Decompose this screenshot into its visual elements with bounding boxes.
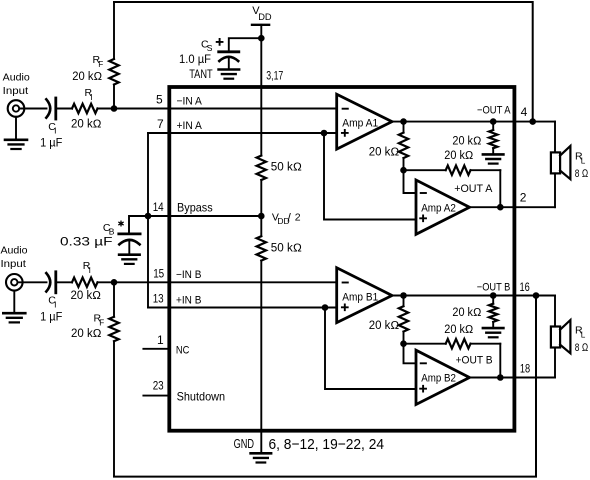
connector J2 audio input B bbox=[6, 274, 23, 291]
svg-text:20 kΩ: 20 kΩ bbox=[452, 307, 481, 319]
resistor 20k A horiz bbox=[404, 169, 446, 171]
svg-text:Audio: Audio bbox=[3, 71, 30, 83]
ground 20k A bbox=[483, 153, 504, 156]
svg-text:Amp A2: Amp A2 bbox=[421, 202, 456, 214]
AmpA2 minus bbox=[421, 192, 426, 194]
wire speaker A bottom bbox=[554, 173, 556, 207]
svg-text:20 kΩ: 20 kΩ bbox=[71, 328, 102, 340]
wire -IN B bbox=[169, 281, 336, 283]
svg-text:F: F bbox=[99, 319, 104, 328]
wire +IN B bbox=[148, 307, 337, 309]
svg-text:−IN B: −IN B bbox=[176, 269, 201, 281]
node +OUT A bbox=[497, 204, 504, 211]
svg-text:20 kΩ: 20 kΩ bbox=[369, 147, 400, 159]
svg-text:6, 8−12, 19−22, 24: 6, 8−12, 19−22, 24 bbox=[269, 436, 385, 453]
node bypass junction bbox=[145, 213, 152, 220]
pin 1 NC stub bbox=[143, 348, 169, 350]
wire rail to GND bbox=[260, 261, 262, 454]
node A input junction bbox=[111, 105, 118, 112]
wire VDD rail bbox=[260, 25, 262, 156]
capacitor CB bbox=[119, 232, 140, 235]
wire RI_A to node bbox=[98, 108, 170, 110]
svg-text:1 µF: 1 µF bbox=[40, 311, 62, 323]
wire -IN A bbox=[169, 108, 336, 110]
wire A2 plus input bbox=[324, 133, 416, 220]
svg-text:I: I bbox=[89, 266, 91, 275]
ground GND bbox=[251, 452, 272, 455]
speaker RL_B bbox=[551, 327, 560, 348]
AmpB2 plus bbox=[420, 386, 426, 392]
capacitor CI_A bbox=[46, 99, 50, 117]
node -OUT B ext bbox=[533, 292, 540, 299]
svg-text:13: 13 bbox=[153, 292, 164, 306]
resistor RF_A bbox=[113, 2, 115, 59]
svg-text:−IN A: −IN A bbox=[177, 95, 203, 107]
AmpA1 plus bbox=[342, 130, 348, 136]
VDD terminal bar bbox=[252, 24, 269, 26]
wire speaker B top bbox=[554, 296, 556, 327]
node +OUT B bbox=[497, 374, 504, 381]
svg-text:Input: Input bbox=[3, 85, 29, 97]
wire CB branch bbox=[129, 216, 148, 234]
resistor RI_B bbox=[72, 278, 98, 287]
svg-text:5: 5 bbox=[156, 93, 163, 107]
ground J1 bbox=[15, 117, 17, 140]
AmpB2 minus bbox=[421, 362, 426, 364]
node A gnd-R tap bbox=[490, 118, 497, 125]
AmpA2 plus bbox=[420, 215, 426, 221]
svg-text:+OUT A: +OUT A bbox=[454, 183, 493, 195]
wire B fb to B2 minus bbox=[404, 344, 417, 364]
svg-text:50 kΩ: 50 kΩ bbox=[271, 162, 302, 174]
svg-text:GND: GND bbox=[234, 437, 254, 451]
wire bypass to rail bbox=[148, 215, 261, 217]
svg-text:L: L bbox=[581, 156, 586, 165]
wire B2 plus input bbox=[325, 308, 416, 390]
AmpB1 minus bbox=[343, 282, 348, 284]
wire feedback B (bottom loop RF_B to -OUT B) bbox=[114, 296, 536, 477]
svg-text:I: I bbox=[90, 93, 92, 102]
wire feedback A (top loop RF_A to -OUT A) bbox=[114, 2, 533, 122]
svg-text:20 kΩ: 20 kΩ bbox=[369, 320, 400, 332]
resistor 50k lower bbox=[257, 236, 266, 260]
svg-text:0.33 µF: 0.33 µF bbox=[60, 236, 113, 248]
wire J2 to CI_B bbox=[18, 281, 47, 283]
wire RI_B to node bbox=[98, 281, 170, 283]
connector J1 audio input A bbox=[8, 100, 25, 117]
svg-text:L: L bbox=[581, 330, 586, 339]
wire J1 to CI_A bbox=[19, 108, 46, 110]
svg-text:I: I bbox=[54, 126, 56, 136]
speaker RL_A bbox=[551, 152, 560, 173]
resistor 20k A fb bbox=[403, 122, 405, 133]
svg-text:20 kΩ: 20 kΩ bbox=[444, 324, 473, 336]
wire 50k to node bbox=[260, 180, 262, 236]
resistor 20k B gnd bbox=[492, 296, 494, 304]
resistor 50k upper bbox=[257, 156, 266, 180]
svg-text:1 µF: 1 µF bbox=[40, 137, 62, 149]
node +IN B branch bbox=[322, 304, 329, 311]
wire speaker B bottom bbox=[554, 348, 556, 378]
svg-text:−OUT A: −OUT A bbox=[477, 105, 511, 117]
resistor 20k B horiz bbox=[404, 343, 446, 345]
op-amp AmpA2 bbox=[416, 180, 470, 234]
svg-text:Shutdown: Shutdown bbox=[177, 390, 226, 404]
svg-text:Amp B2: Amp B2 bbox=[421, 373, 456, 385]
svg-text:+OUT B: +OUT B bbox=[456, 355, 493, 367]
wire 20k to +OUT A bbox=[499, 170, 501, 207]
node B gnd-R tap bbox=[490, 292, 497, 299]
svg-text:S: S bbox=[207, 43, 213, 53]
svg-text:20 kΩ: 20 kΩ bbox=[444, 150, 473, 162]
resistor 20k B fb bbox=[403, 296, 405, 307]
resistor RI_A bbox=[72, 104, 98, 113]
svg-text:50 kΩ: 50 kΩ bbox=[271, 243, 302, 255]
op-amp AmpA1 bbox=[337, 94, 392, 149]
svg-text:8 Ω: 8 Ω bbox=[575, 168, 589, 180]
svg-text:Bypass: Bypass bbox=[177, 200, 213, 214]
node VDD/2 bbox=[258, 213, 265, 220]
ground CS bbox=[219, 68, 240, 71]
svg-text:23: 23 bbox=[153, 379, 164, 393]
svg-text:−OUT B: −OUT B bbox=[477, 281, 511, 293]
wire A fb to A2 minus bbox=[404, 170, 417, 193]
wire CS branch bbox=[229, 38, 261, 52]
resistor RF_B bbox=[113, 282, 115, 317]
svg-text:Audio: Audio bbox=[1, 245, 28, 257]
svg-text:I: I bbox=[54, 299, 56, 309]
ground 20k B bbox=[483, 327, 504, 330]
pin 23 Shutdown stub bbox=[143, 395, 169, 397]
svg-text:14: 14 bbox=[153, 200, 164, 214]
capacitor CS plus sign bbox=[217, 39, 223, 45]
wire A2 out bbox=[470, 206, 556, 208]
svg-text:TANT: TANT bbox=[189, 69, 213, 81]
node B fb bbox=[400, 340, 407, 347]
svg-text:Amp A1: Amp A1 bbox=[342, 118, 378, 130]
label CB asterisk bbox=[119, 221, 123, 226]
AmpB1 plus bbox=[342, 304, 348, 310]
svg-text:7: 7 bbox=[157, 117, 164, 131]
capacitor CS bbox=[219, 50, 239, 53]
ground CB bbox=[119, 253, 140, 256]
node +IN A branch bbox=[321, 130, 328, 137]
IC package box U1 bbox=[169, 87, 514, 431]
svg-text:DD: DD bbox=[258, 12, 272, 22]
svg-text:20 kΩ: 20 kΩ bbox=[71, 118, 102, 130]
svg-text:+IN A: +IN A bbox=[177, 120, 203, 132]
wire bypass vertical (pin7 to pin13) bbox=[147, 133, 149, 308]
wire CI_B to RI_B bbox=[56, 281, 72, 283]
svg-text:3,17: 3,17 bbox=[266, 70, 283, 82]
wire +IN A bbox=[148, 132, 337, 134]
node B1 out fb bbox=[400, 292, 407, 299]
svg-text:20 kΩ: 20 kΩ bbox=[71, 290, 102, 302]
capacitor CI_B bbox=[46, 273, 50, 291]
svg-text:4: 4 bbox=[521, 105, 528, 119]
svg-text:16: 16 bbox=[520, 280, 531, 294]
node A1 out fb bbox=[400, 118, 407, 125]
svg-text:20 kΩ: 20 kΩ bbox=[72, 71, 102, 83]
wire B2 out bbox=[470, 377, 556, 379]
svg-text:8 Ω: 8 Ω bbox=[575, 342, 589, 354]
AmpA1 minus bbox=[343, 108, 348, 110]
svg-text:B: B bbox=[109, 227, 115, 237]
node VDD / CS tap bbox=[258, 35, 265, 42]
svg-text:18: 18 bbox=[520, 362, 531, 376]
wire B1 out bbox=[392, 295, 555, 297]
svg-text:2: 2 bbox=[520, 191, 527, 205]
svg-text:Amp B1: Amp B1 bbox=[342, 291, 378, 303]
op-amp AmpB1 bbox=[337, 268, 392, 323]
node -OUT A ext bbox=[529, 118, 536, 125]
wire speaker A top bbox=[554, 122, 556, 153]
svg-text:Input: Input bbox=[1, 258, 27, 270]
svg-text:NC: NC bbox=[176, 345, 190, 357]
svg-text:2: 2 bbox=[295, 211, 301, 223]
svg-text:15: 15 bbox=[153, 266, 164, 280]
node A fb bbox=[400, 167, 407, 174]
node B input junction bbox=[111, 279, 118, 286]
svg-text:+IN B: +IN B bbox=[176, 294, 201, 306]
wire A1 out bbox=[392, 121, 555, 123]
svg-text:F: F bbox=[98, 60, 103, 69]
svg-text:1.0 µF: 1.0 µF bbox=[179, 54, 211, 66]
svg-text:1: 1 bbox=[157, 333, 164, 347]
svg-text:20 kΩ: 20 kΩ bbox=[452, 135, 481, 147]
op-amp AmpB2 bbox=[416, 350, 470, 404]
resistor 20k A gnd bbox=[492, 122, 494, 130]
wire 20k to +OUT B bbox=[499, 344, 501, 378]
wire CI_A to RI_A bbox=[56, 108, 72, 110]
ground J2 bbox=[13, 291, 15, 314]
